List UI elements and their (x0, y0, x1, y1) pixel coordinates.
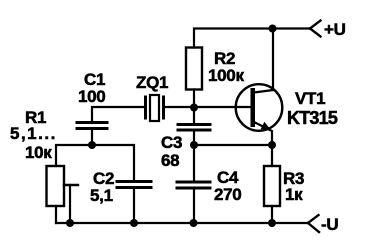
wire C4 bottom lead (193, 189, 195, 224)
resistor R1 (47, 166, 65, 206)
wire collector vertical (272, 29, 274, 91)
svg-text:1к: 1к (285, 185, 303, 204)
terminal +U (310, 21, 321, 37)
node R1 wiper on rail (66, 219, 74, 227)
node collector junction on top rail (269, 25, 277, 33)
transistor VT1 (236, 84, 283, 145)
wire R3 bottom lead (271, 206, 273, 223)
wire R3 top lead (271, 145, 273, 166)
capacitor C4 (177, 182, 210, 188)
wire bottom rail (56, 222, 308, 224)
wire emitter horizontal (194, 144, 272, 146)
svg-text:KT315: KT315 (287, 108, 338, 128)
svg-text:68: 68 (161, 151, 179, 170)
node R3 on rail (268, 219, 276, 227)
wire ZQ1 right to transistor base (165, 106, 251, 108)
svg-text:+U: +U (324, 20, 346, 39)
node C1 bottom junction (88, 141, 96, 149)
wire top rail from R2 top to +U terminal (194, 29, 310, 48)
node emitter R3 junction (268, 141, 276, 149)
wire C1 top lead to ZQ1 left (92, 107, 144, 121)
node C4 on rail (190, 219, 198, 227)
svg-text:100к: 100к (208, 66, 244, 85)
node C2 on rail (130, 219, 138, 227)
terminal -U (308, 215, 319, 232)
capacitor C1 (77, 123, 107, 129)
svg-text:C3: C3 (161, 133, 182, 152)
wire C2 bottom lead (133, 188, 135, 224)
resistor R3 (264, 166, 280, 206)
node ZQ1 R2 C3 junction (190, 104, 198, 112)
capacitor C2 (117, 182, 151, 188)
wire R2 bottom lead (193, 90, 195, 124)
svg-text:VT1: VT1 (295, 89, 325, 108)
wiper tap of R1 (64, 185, 78, 223)
node C3 emitter wire left junction (190, 141, 198, 149)
resistor R2 (186, 48, 202, 90)
wire node B horizontal to R1 and C2 (56, 145, 134, 180)
svg-text:10к: 10к (25, 143, 52, 162)
svg-text:100: 100 (78, 87, 105, 106)
crystal ZQ1 (146, 95, 164, 121)
svg-text:-U: -U (321, 215, 338, 234)
svg-text:5,1: 5,1 (90, 186, 113, 205)
svg-text:270: 270 (214, 185, 241, 204)
wire C1 bottom lead (91, 129, 93, 145)
wire C4 top lead (193, 145, 195, 181)
capacitor C3 (178, 125, 210, 131)
wire C3 bottom lead (193, 131, 195, 145)
svg-text:ZQ1: ZQ1 (136, 73, 168, 92)
wire R1 bottom lead (55, 206, 57, 223)
svg-text:5,1...: 5,1... (10, 124, 57, 143)
